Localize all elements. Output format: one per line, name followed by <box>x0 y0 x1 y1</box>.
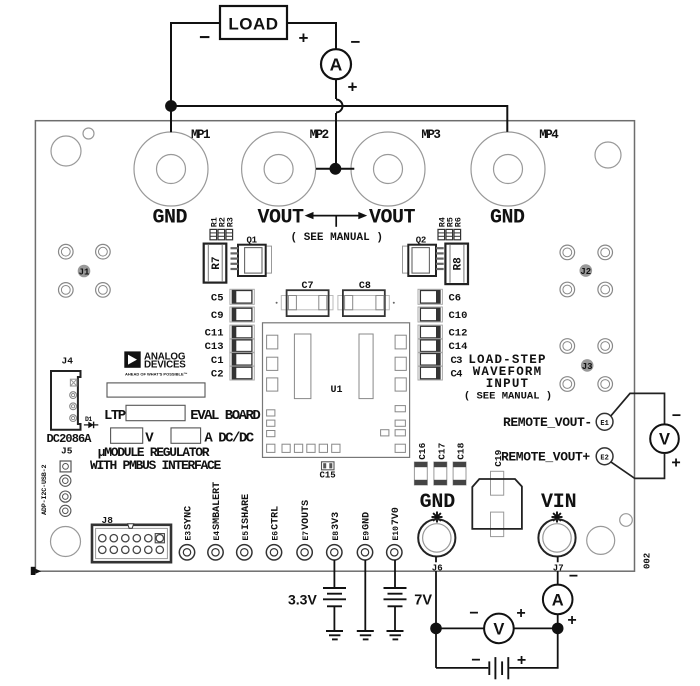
capacitor C10 <box>418 307 442 322</box>
wire battery 7V to ground <box>394 606 396 631</box>
wire dot to voltmeter <box>436 627 484 629</box>
fiducial mark bottom-left corner <box>31 567 41 575</box>
wire ammeter to dot <box>557 614 559 628</box>
svg-text:C18: C18 <box>456 442 467 459</box>
svg-text:C13: C13 <box>205 341 224 353</box>
ground symbol 7V <box>387 631 404 639</box>
header J2 <box>560 245 613 297</box>
turret E2 <box>596 448 613 465</box>
capacitor C19 <box>472 471 522 536</box>
svg-text:VOUT: VOUT <box>258 207 305 230</box>
svg-text:002: 002 <box>643 553 653 569</box>
header J1 <box>59 244 111 297</box>
svg-text:( SEE MANUAL ): ( SEE MANUAL ) <box>291 232 383 244</box>
wire E8 to battery 3V3 <box>333 560 335 588</box>
svg-text:MP4: MP4 <box>539 128 559 142</box>
capacitor C14 <box>418 339 442 353</box>
U1 bottom pads <box>267 444 340 452</box>
svg-text:A: A <box>330 55 343 75</box>
svg-text:E1: E1 <box>600 420 608 428</box>
svg-text:7V: 7V <box>414 593 432 609</box>
svg-text:GND: GND <box>490 207 525 230</box>
wire J6 down <box>435 557 437 668</box>
svg-text:C1: C1 <box>211 355 224 367</box>
wire E10 to battery 7V <box>394 560 396 588</box>
wire voltmeter to E2 <box>611 453 665 478</box>
svg-text:R6: R6 <box>454 217 464 227</box>
capacitor C18 <box>453 462 466 485</box>
junction dot vout node <box>330 163 342 175</box>
load box <box>220 6 287 39</box>
svg-text:J4: J4 <box>62 356 74 367</box>
svg-text:C10: C10 <box>449 310 468 322</box>
double arrow between VOUT labels <box>305 212 368 227</box>
svg-text:C17: C17 <box>436 442 447 459</box>
svg-text:R7: R7 <box>211 256 223 269</box>
turret E1 <box>596 413 613 430</box>
connector J8 <box>92 524 171 563</box>
svg-text:VOUT: VOUT <box>369 207 416 230</box>
svg-text:J3: J3 <box>582 362 593 372</box>
resistor network R1 <box>210 229 217 239</box>
svg-text:GND: GND <box>420 491 456 514</box>
diode D1 <box>84 416 98 428</box>
silkscreen blank box amps <box>171 428 201 443</box>
turret E7 with label VOUTS <box>297 500 312 560</box>
note LOAD-STEP WAVEFORM INPUT <box>464 353 552 403</box>
svg-text:E3SYNC: E3SYNC <box>184 506 195 541</box>
svg-text:C11: C11 <box>205 328 224 340</box>
ADI logo square <box>124 351 140 367</box>
svg-text:REMOTE_VOUT+: REMOTE_VOUT+ <box>501 450 590 465</box>
wire ammeter down <box>335 79 337 99</box>
svg-text:E7VOUTS: E7VOUTS <box>301 500 312 541</box>
svg-text:C12: C12 <box>449 328 468 340</box>
resistor network R6 <box>454 229 461 239</box>
wire gnd bus to MP4 <box>171 106 507 132</box>
svg-text:C5: C5 <box>211 292 224 304</box>
svg-text:E6CTRL: E6CTRL <box>271 506 282 541</box>
wire dot down to battery <box>509 628 558 668</box>
capacitor C3 <box>418 352 442 366</box>
svg-text:+: + <box>567 612 576 629</box>
capacitor C6 <box>418 289 442 304</box>
wire load left <box>171 23 220 132</box>
post MP2 <box>242 132 316 206</box>
svg-text:+: + <box>671 455 680 472</box>
svg-text:R8: R8 <box>453 257 465 271</box>
svg-text:LTP: LTP <box>104 408 126 424</box>
capacitor C9 <box>230 307 254 322</box>
resistor network R2 <box>218 229 225 239</box>
wire battery 3V3 to ground <box>333 606 335 631</box>
capacitor C13 <box>230 339 254 353</box>
svg-text:WITH PMBUS INTERFACE: WITH PMBUS INTERFACE <box>90 458 222 473</box>
transistor Q2 <box>403 245 444 276</box>
transistor Q1 <box>231 245 272 276</box>
junction dot gnd node <box>165 100 177 112</box>
svg-text:DC2086A: DC2086A <box>47 432 93 446</box>
source battery <box>489 657 508 679</box>
svg-text:C2: C2 <box>211 369 224 381</box>
resistor R8 <box>445 244 468 285</box>
capacitor C15 <box>322 462 335 470</box>
svg-text:V: V <box>493 621 504 639</box>
capacitor C8 <box>338 290 395 316</box>
svg-text:+: + <box>516 605 525 622</box>
capacitor C4 <box>418 366 442 380</box>
capacitor C16 <box>414 462 427 485</box>
capacitor C5 <box>230 289 254 304</box>
connector J4 <box>51 371 81 430</box>
silkscreen blank box volts <box>111 428 143 443</box>
wire vout bus MP2-MP3 <box>316 168 354 170</box>
small hole top-left <box>83 128 94 139</box>
battery 7V <box>384 588 407 606</box>
svg-text:AHEAD OF WHAT'S POSSIBLE™: AHEAD OF WHAT'S POSSIBLE™ <box>125 372 188 377</box>
ammeter bottom <box>543 585 573 615</box>
svg-text:−: − <box>351 33 361 52</box>
wire J7 to ammeter <box>557 557 559 585</box>
svg-text:A DC/DC: A DC/DC <box>204 430 254 446</box>
svg-text:+: + <box>299 29 309 48</box>
label J1 <box>78 265 91 278</box>
mounting hole bottom-right <box>587 526 615 554</box>
svg-text:C6: C6 <box>449 292 462 304</box>
svg-text:LOAD: LOAD <box>228 15 278 34</box>
turret E5 with label ISHARE <box>237 494 252 560</box>
U1 inner pad right tall <box>359 334 373 399</box>
svg-text:U1: U1 <box>331 385 343 396</box>
capacitor C7 <box>276 290 333 316</box>
svg-text:−: − <box>471 652 480 669</box>
svg-text:J5: J5 <box>61 446 73 457</box>
capacitor C2 <box>230 366 254 380</box>
svg-text:C4: C4 <box>451 369 463 381</box>
svg-text:VIN: VIN <box>541 491 576 514</box>
svg-text:J6: J6 <box>432 563 443 573</box>
resistor network R5 <box>446 229 453 239</box>
wire voltmeter to dot <box>514 627 558 629</box>
svg-text:−: − <box>672 408 681 425</box>
capacitor C11 <box>230 325 254 339</box>
svg-text:E107V0: E107V0 <box>391 507 402 540</box>
svg-text:C3: C3 <box>451 355 463 367</box>
ammeter A1 <box>321 49 351 79</box>
junction dot J7 <box>552 623 564 635</box>
svg-text:+: + <box>517 652 526 669</box>
svg-text:C15: C15 <box>320 471 336 481</box>
turret E6 with label CTRL <box>266 506 281 560</box>
ADI logo wordmark <box>125 351 188 376</box>
label J3 <box>581 359 594 372</box>
svg-text:J1: J1 <box>79 268 90 278</box>
svg-text:EVAL BOARD: EVAL BOARD <box>190 408 260 424</box>
svg-text:E2: E2 <box>600 454 608 462</box>
silkscreen blank box part number <box>126 405 185 420</box>
U1 left pads <box>267 335 278 437</box>
wire ammeter to vout node <box>335 113 337 164</box>
svg-text:MP1: MP1 <box>191 128 210 142</box>
svg-text:C9: C9 <box>211 310 224 322</box>
svg-text:MP3: MP3 <box>421 128 440 142</box>
turret E4 with label SMBALERT <box>208 482 223 560</box>
capacitor C1 <box>230 352 254 366</box>
header J3 <box>560 339 613 392</box>
svg-text:−: − <box>569 568 578 585</box>
wire load right to ammeter <box>287 23 336 49</box>
turret E8 with label 3V3 <box>327 512 342 560</box>
wire hop over gnd bus <box>336 100 343 113</box>
svg-text:3.3V: 3.3V <box>288 592 317 608</box>
svg-text:( SEE MANUAL ): ( SEE MANUAL ) <box>464 391 552 403</box>
voltmeter bottom <box>484 614 514 644</box>
svg-text:DEVICES: DEVICES <box>144 360 186 371</box>
voltmeter remote <box>650 424 679 453</box>
svg-text:ADP-I2C-USB-2: ADP-I2C-USB-2 <box>41 464 49 515</box>
svg-text:INPUT: INPUT <box>486 377 530 391</box>
mounting hole top-left <box>51 136 81 166</box>
svg-text:GND: GND <box>153 207 188 230</box>
asterisk J6 <box>432 512 443 523</box>
module U1 outline <box>263 323 410 458</box>
svg-text:+: + <box>348 78 358 97</box>
connector J5 <box>60 461 71 516</box>
post MP4 <box>471 132 545 206</box>
resistor network R4 <box>438 229 445 239</box>
mounting hole top-right <box>595 142 621 168</box>
junction dot J6 <box>430 623 442 635</box>
wire E9 to ground <box>364 560 366 631</box>
turret E3 with label SYNC <box>179 506 194 560</box>
svg-text:E5ISHARE: E5ISHARE <box>241 494 252 541</box>
small hole bottom-right <box>620 514 633 527</box>
svg-text:V: V <box>659 431 670 449</box>
svg-text:−: − <box>469 605 478 622</box>
turret E10 with label 7V0 <box>387 507 402 560</box>
asterisk J7 <box>552 512 563 523</box>
svg-text:REMOTE_VOUT-: REMOTE_VOUT- <box>503 415 592 430</box>
svg-text:C16: C16 <box>417 442 428 459</box>
svg-text:E9GND: E9GND <box>362 512 373 541</box>
svg-text:E83V3: E83V3 <box>331 512 342 541</box>
label J2 <box>580 264 593 277</box>
turret E9 with label GND <box>357 512 372 560</box>
U1 inner pad left tall <box>294 334 311 399</box>
capacitor C17 <box>434 462 447 485</box>
mounting hole bottom-left <box>51 527 81 557</box>
svg-text:E4SMBALERT: E4SMBALERT <box>212 482 223 541</box>
U1 right pads <box>381 335 407 452</box>
capacitor C12 <box>418 325 442 339</box>
post MP3 <box>351 132 425 206</box>
board outline <box>35 121 634 572</box>
battery 3V3 <box>323 588 346 606</box>
resistor R7 <box>204 244 227 283</box>
ground symbol E9 <box>357 631 374 639</box>
resistor network R3 <box>226 229 233 239</box>
wire E1 to voltmeter <box>611 393 665 424</box>
ground symbol 3V3 <box>326 631 343 639</box>
svg-text:J2: J2 <box>580 267 591 277</box>
post MP1 <box>134 132 208 206</box>
svg-text:MP2: MP2 <box>310 128 329 142</box>
banana jack J7 <box>538 519 575 556</box>
silkscreen blank box under logo <box>107 383 205 397</box>
wire dot J6 down to battery <box>436 667 488 669</box>
banana jack J6 <box>418 519 455 556</box>
svg-text:A: A <box>552 592 564 610</box>
svg-text:R3: R3 <box>226 217 236 227</box>
svg-text:−: − <box>199 28 210 49</box>
svg-text:C14: C14 <box>449 341 468 353</box>
